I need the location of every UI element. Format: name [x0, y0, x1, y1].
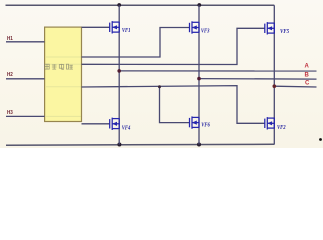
wire VF1 column vertical: [118, 5, 120, 144]
transistor VF2: [265, 117, 275, 129]
driver block faint internal wire bleed: [46, 57, 81, 116]
driver block label pseudo hanzi 电: [59, 64, 64, 69]
driver block label pseudo hanzi 动: [52, 64, 57, 69]
wire phase line A: [119, 70, 316, 72]
svg-text:VF6: VF6: [201, 122, 210, 129]
wire gate feed VF5: [82, 28, 265, 64]
transistor VF4: [110, 118, 120, 130]
node junction VF6 branch: [158, 85, 161, 88]
svg-text:C: C: [305, 81, 310, 87]
wire H1 input: [6, 41, 45, 43]
node junction bottom bus at VF6 column: [197, 143, 201, 147]
wire bottom return bus: [6, 143, 274, 146]
svg-text:VF2: VF2: [277, 124, 286, 131]
wire H2 input: [6, 78, 45, 80]
transistor VF1: [110, 21, 120, 33]
svg-text:H1: H1: [7, 36, 13, 42]
transistor VF5: [265, 22, 275, 34]
driver block label pseudo hanzi 路: [67, 64, 73, 69]
wire gate feed VF6 and VF2: [82, 86, 265, 124]
node black terminal dot bottom right: [319, 138, 322, 141]
svg-text:VF1: VF1: [122, 27, 131, 34]
transistor VF6: [190, 116, 200, 128]
svg-text:H2: H2: [7, 72, 13, 78]
wire VF6 gate branch: [160, 87, 190, 123]
wire gate feed VF4: [82, 123, 110, 125]
node junction on top bus at VF1 column: [117, 3, 121, 7]
wire gate feed VF3: [82, 28, 190, 58]
wire VF3 column vertical: [198, 5, 200, 144]
svg-text:A: A: [305, 63, 310, 69]
wire H3 input: [6, 115, 45, 117]
driver block label pseudo hanzi 驱: [45, 64, 50, 69]
node junction phase B: [197, 77, 201, 81]
wire gate feed VF1: [82, 26, 110, 28]
wire VF5 column vertical: [273, 5, 275, 144]
svg-text:B: B: [305, 73, 310, 79]
wire phase line B: [199, 78, 317, 81]
wire top supply bus: [6, 4, 275, 6]
svg-text:VF4: VF4: [122, 124, 131, 131]
wire phase line C: [274, 85, 316, 88]
svg-text:H3: H3: [7, 110, 13, 116]
node junction phase C: [273, 84, 277, 88]
driver block rectangle: [45, 27, 82, 121]
node junction phase A: [117, 69, 121, 73]
transistor VF3: [190, 21, 200, 33]
svg-text:VF3: VF3: [201, 27, 210, 34]
node junction bottom bus at VF4 column: [117, 143, 121, 147]
node junction on top bus at VF3 column: [197, 3, 201, 7]
svg-text:VF5: VF5: [280, 28, 289, 35]
